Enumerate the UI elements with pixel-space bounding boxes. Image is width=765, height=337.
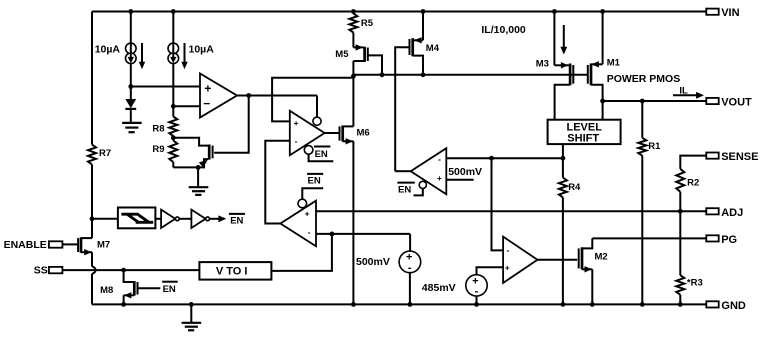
svg-text:M1: M1 bbox=[607, 57, 621, 68]
svg-text:M7: M7 bbox=[97, 240, 110, 251]
svg-text:R7: R7 bbox=[99, 148, 111, 159]
resistor R8 bbox=[152, 117, 177, 137]
svg-text:M3: M3 bbox=[536, 59, 549, 70]
wire U5 output to M2 gate bbox=[538, 259, 578, 261]
svg-text:EN: EN bbox=[315, 149, 328, 160]
svg-text:ENABLE: ENABLE bbox=[4, 239, 47, 251]
op-amp U3 left pointing with 500mV bbox=[411, 148, 447, 194]
op-amp U5 PG comparator bbox=[503, 237, 537, 283]
terminal VIN bbox=[706, 7, 739, 19]
label EN bar output bbox=[229, 214, 245, 227]
node schmitt tap bbox=[90, 216, 95, 221]
svg-text:10µA: 10µA bbox=[95, 44, 121, 56]
svg-text:SS: SS bbox=[34, 265, 48, 277]
node R8 R9 junction bbox=[171, 135, 176, 140]
svg-text:+: + bbox=[305, 209, 310, 219]
svg-text:+: + bbox=[294, 118, 299, 128]
node M5 gate junction bbox=[380, 72, 385, 77]
wire M5 drain to M6 drain vertical bbox=[352, 61, 354, 126]
wire U3 enable bubble stub bbox=[419, 181, 426, 188]
inverter A2 bbox=[179, 210, 209, 228]
terminal GND bbox=[706, 300, 746, 312]
svg-text:M6: M6 bbox=[357, 128, 370, 139]
wire U3 output to M4 gate line bbox=[395, 170, 411, 172]
wire mirror rail left segment bbox=[272, 78, 353, 122]
terminal PG bbox=[706, 234, 737, 246]
resistor R9 bbox=[152, 141, 177, 163]
svg-text:ADJ: ADJ bbox=[721, 207, 743, 219]
terminal VOUT bbox=[706, 97, 752, 109]
transistor M3 bbox=[536, 12, 574, 120]
svg-text:-: - bbox=[506, 245, 509, 255]
current source I1 10uA bbox=[95, 12, 146, 87]
svg-text:EN: EN bbox=[398, 184, 411, 195]
transistor M4 bbox=[410, 12, 440, 75]
svg-text:M8: M8 bbox=[100, 285, 113, 296]
diode D1 bbox=[125, 87, 136, 123]
wire M4 gate down to U3 output bbox=[395, 47, 409, 171]
wire CS2 to R8 bbox=[172, 64, 174, 117]
wire arrow to EN bar bbox=[210, 215, 227, 222]
wire current arrow at M3 bbox=[560, 25, 567, 55]
voltage source V2 485mV bbox=[422, 267, 503, 304]
svg-text:R1: R1 bbox=[648, 141, 661, 152]
node A error amp + input net bbox=[128, 84, 133, 89]
svg-text:R8: R8 bbox=[152, 124, 164, 135]
svg-text:-: - bbox=[295, 136, 298, 146]
inverter A1 bbox=[155, 210, 179, 228]
svg-text:PG: PG bbox=[721, 234, 737, 246]
wire U3 minus to level shift net bbox=[446, 157, 563, 159]
wire M7 source with hop over SS bbox=[91, 252, 93, 266]
node M5 drain junction bbox=[351, 74, 356, 79]
svg-text:IL/10,000: IL/10,000 bbox=[481, 24, 526, 36]
ground G3 below rail bbox=[182, 304, 202, 330]
svg-text:POWER PMOS: POWER PMOS bbox=[607, 73, 681, 85]
resistor R4 bbox=[559, 178, 581, 198]
wire U3 plus stub 500mV bbox=[446, 179, 473, 181]
op-amp U4 left pointing bbox=[280, 201, 316, 247]
svg-text:VIN: VIN bbox=[721, 7, 739, 19]
node error amp - input net bbox=[171, 104, 176, 109]
resistor R7 bbox=[88, 145, 111, 165]
label EN bar M8 bbox=[162, 282, 178, 295]
wire U2 enable stub bbox=[304, 146, 313, 155]
svg-text:M4: M4 bbox=[426, 43, 440, 54]
transistor M7 bbox=[78, 237, 110, 255]
node top rail junctions bbox=[128, 9, 133, 14]
svg-text:EN: EN bbox=[163, 284, 176, 295]
svg-text:+: + bbox=[505, 262, 510, 272]
resistor R3 bbox=[676, 211, 702, 304]
svg-text:GND: GND bbox=[721, 300, 746, 312]
wire level shift output bbox=[562, 144, 564, 177]
transistor M6 bbox=[340, 126, 370, 145]
wire U4 enable bubble stub bbox=[298, 199, 307, 208]
node ground rail junctions bbox=[121, 302, 126, 307]
terminal SENSE bbox=[680, 151, 758, 169]
terminal ADJ bbox=[706, 207, 743, 219]
resistor R2 bbox=[676, 169, 699, 211]
label EN bar U4 bbox=[307, 174, 323, 187]
wire M6 source to ground rail bbox=[352, 141, 354, 304]
svg-text:SENSE: SENSE bbox=[721, 151, 758, 163]
wire U2 minus input from U4 output bbox=[265, 141, 290, 224]
box schmitt trigger bbox=[118, 208, 155, 229]
node M4 drain junction bbox=[421, 72, 426, 77]
label EN bar U3 bbox=[397, 183, 414, 196]
transistor M8 bbox=[100, 270, 137, 304]
terminal SS bbox=[34, 265, 200, 277]
wire VOUT line bbox=[603, 100, 707, 102]
wire U2 output to M6 gate bbox=[325, 132, 339, 134]
wire U1 out to U2 top bubble bbox=[316, 96, 318, 118]
svg-text:485mV: 485mV bbox=[422, 282, 456, 294]
svg-text:+: + bbox=[204, 82, 211, 96]
wire ADJ feedback line bbox=[316, 210, 706, 212]
wire M8 gate to EN bar bbox=[138, 287, 161, 289]
svg-text:V TO I: V TO I bbox=[216, 265, 248, 277]
svg-text:-: - bbox=[408, 262, 412, 274]
svg-text:LEVEL: LEVEL bbox=[567, 121, 603, 133]
wire R4 bottom to ground rail bbox=[562, 198, 564, 305]
wire U1 output branch to Q1 gate bbox=[214, 96, 249, 153]
wire R7 to M7 drain bbox=[91, 165, 93, 239]
svg-text:R2: R2 bbox=[687, 177, 699, 188]
svg-text:EN: EN bbox=[230, 216, 243, 227]
resistor R5 bbox=[349, 14, 373, 33]
transistor M5 bbox=[335, 33, 382, 75]
svg-text:M5: M5 bbox=[335, 49, 349, 60]
svg-text:-: - bbox=[438, 154, 441, 164]
svg-text:R5: R5 bbox=[361, 18, 374, 29]
wire left vertical from VIN rail bbox=[91, 12, 93, 145]
svg-text:500mV: 500mV bbox=[356, 256, 390, 268]
svg-text:M2: M2 bbox=[595, 252, 608, 263]
svg-text:-: - bbox=[475, 285, 479, 297]
ground G1 bbox=[122, 123, 142, 132]
box level shift bbox=[548, 120, 621, 145]
box V TO I bbox=[199, 262, 271, 280]
resistor R1 bbox=[638, 101, 661, 304]
voltage source V1 500mV bbox=[356, 234, 421, 305]
wire top VIN rail bbox=[92, 11, 706, 13]
op-amp U2 comparator driving M6 bbox=[290, 111, 325, 155]
ground G2 bbox=[189, 187, 209, 195]
svg-text:−: − bbox=[203, 97, 210, 111]
svg-text:R4: R4 bbox=[568, 182, 581, 193]
terminal ENABLE bbox=[4, 239, 78, 251]
wire PG line bbox=[592, 237, 706, 239]
svg-text:SHIFT: SHIFT bbox=[567, 133, 599, 145]
node Q1 source ground junction bbox=[196, 165, 201, 170]
node SS M8 drain junction bbox=[121, 268, 126, 273]
svg-text:VOUT: VOUT bbox=[721, 97, 752, 109]
svg-text:-: - bbox=[308, 227, 311, 237]
label IL arrow at VOUT bbox=[673, 85, 704, 98]
label EN bar U2 bbox=[314, 147, 330, 160]
transistor Q1 bbox=[173, 138, 212, 168]
wire to schmitt box bbox=[92, 218, 118, 220]
wire branch down to U5 minus bbox=[492, 158, 504, 250]
svg-text:*R3: *R3 bbox=[687, 278, 703, 289]
svg-text:+: + bbox=[437, 173, 442, 183]
wire ground rail bbox=[92, 303, 706, 305]
wire U4 minus to V TO I output bbox=[316, 233, 410, 235]
op-amp U1 error amplifier bbox=[200, 74, 237, 118]
svg-text:R9: R9 bbox=[152, 144, 164, 155]
transistor M2 bbox=[579, 238, 608, 304]
svg-text:10µA: 10µA bbox=[189, 44, 215, 56]
wire U1 output bbox=[237, 95, 317, 97]
svg-text:500mV: 500mV bbox=[448, 166, 482, 178]
current source I2 10uA bbox=[168, 12, 214, 70]
svg-text:EN: EN bbox=[308, 176, 321, 187]
wire mirror rail right segment to M1 gate bbox=[353, 74, 587, 76]
transistor M1 power pmos bbox=[588, 12, 680, 120]
